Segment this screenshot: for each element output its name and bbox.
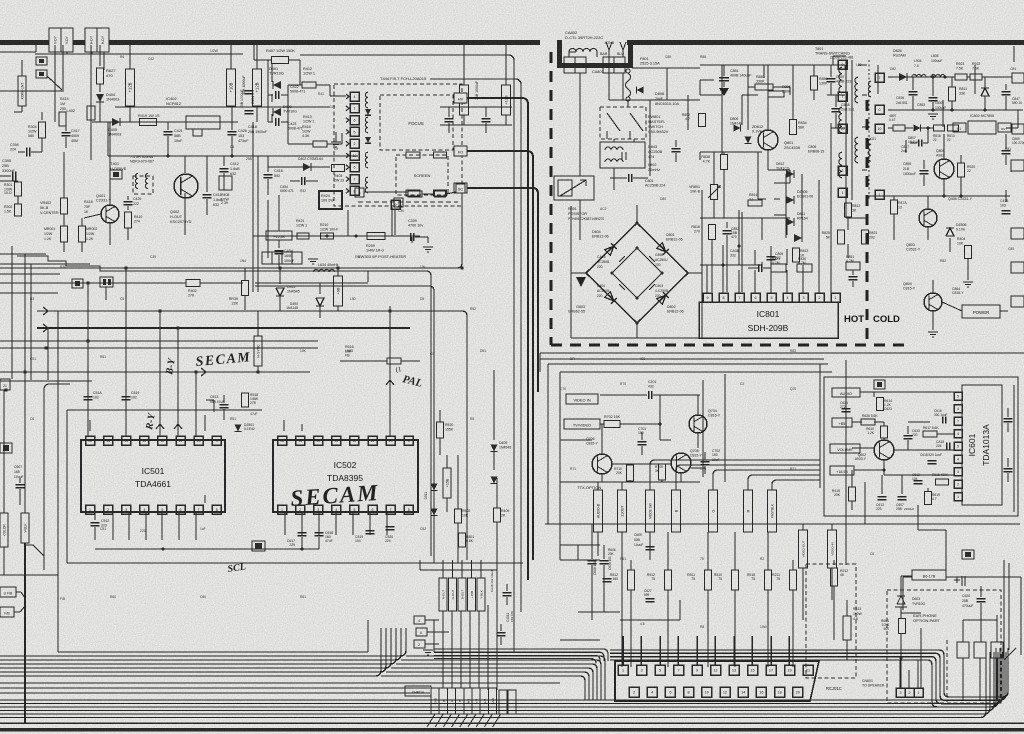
resistor R518 278 — [242, 393, 249, 407]
wire y283 extension — [255, 282, 368, 284]
wire SC line — [467, 188, 538, 392]
IC601 pin squares — [954, 392, 962, 400]
flyback dashed outline — [334, 84, 462, 206]
resistor heater 2 — [435, 191, 446, 197]
node box 4 — [414, 616, 425, 624]
resistor R825 5K — [838, 230, 845, 244]
T801 pin 1 — [838, 188, 847, 197]
wire drop to IC501 pin16 — [87, 283, 89, 436]
resistor R821 0.7M — [771, 264, 786, 272]
capacitor CA38b — [503, 592, 512, 594]
wire smps verticals 2 — [723, 170, 725, 218]
resistor R801b — [459, 533, 466, 547]
wire bus line y723 — [0, 722, 1024, 724]
resistor R419 1W 1S — [140, 119, 157, 126]
vbox H-SYNC — [257, 311, 259, 336]
resistor R301 — [0, 180, 18, 182]
flyback pin9 box — [391, 200, 400, 209]
wire y570 links — [420, 569, 497, 571]
terminal +18.5B — [830, 466, 854, 475]
IC502 top pin row — [278, 436, 287, 445]
wire bus A — [0, 628, 406, 656]
wire earphone diag — [1004, 648, 1016, 660]
IC801 pin row — [703, 293, 712, 302]
capacitor C610r — [1004, 418, 1013, 420]
hot-cold boundary dashed horizontal — [551, 343, 912, 346]
wire audio box outline — [824, 377, 1018, 516]
T801 secondary winding — [868, 81, 871, 97]
wire video net — [659, 395, 661, 424]
screen resistor 2 — [434, 190, 447, 196]
diode D803 ERB12-05 — [605, 292, 617, 304]
posistor R801 — [554, 176, 594, 200]
vbox FASTBLK — [768, 490, 777, 532]
capacitor C613 223 — [878, 496, 887, 498]
IC501 bottom pin row — [86, 505, 95, 514]
T801 pin 10 — [838, 124, 847, 133]
wire right verticals — [1003, 560, 1005, 650]
terminal F/B — [0, 607, 14, 617]
transistor Q804 C815-Y — [924, 293, 942, 311]
wire EW rail — [253, 235, 420, 237]
transistor Q706 — [592, 454, 612, 474]
T801 pin 2 — [838, 166, 847, 175]
wire connector row line — [35, 53, 243, 55]
connector V-DY — [49, 28, 61, 52]
resistor RR39 22K — [244, 268, 246, 280]
resistor R812 3K — [845, 203, 852, 217]
wire EW verticals pair — [252, 122, 254, 292]
resistor R813 100W — [843, 616, 851, 640]
wire RCJ pin feeds — [622, 636, 624, 665]
flyback diode 2 — [365, 137, 371, 143]
resistor R710 20K — [627, 465, 634, 481]
vbox 21OUT — [618, 490, 627, 532]
wire y77 rail — [888, 76, 899, 78]
vbox B-OUT — [458, 578, 466, 611]
resistor R604 820 — [899, 619, 906, 634]
resistor R920 22 — [958, 163, 965, 177]
wire RGB verticals to CH801A — [442, 611, 444, 688]
wire PAL drop — [389, 306, 391, 436]
wire diagonal — [47, 76, 62, 90]
capacitor C417 — [62, 132, 71, 134]
vbox AUDIO-B — [594, 490, 603, 532]
node box 6 — [416, 628, 427, 636]
resistor R511 75 — [707, 532, 709, 570]
node box 2 — [100, 277, 113, 287]
wire long vertical A — [300, 55, 514, 652]
resistor R838 4.7K — [721, 155, 728, 170]
dashed earphone box — [887, 590, 1001, 703]
diode D805 ECB01-06 — [786, 196, 794, 204]
wire z-bends — [33, 545, 44, 556]
transistor Q704 — [689, 415, 707, 433]
right edge terminal 4 — [1011, 262, 1024, 273]
resistor R211 75 — [792, 560, 794, 570]
wire staircase corner down — [368, 271, 431, 556]
resistor R818 56 — [934, 125, 945, 131]
wire bridge bottom — [636, 323, 638, 338]
resistor R709 3K — [659, 464, 666, 480]
diode D402 — [303, 163, 311, 171]
post-header squares — [355, 188, 364, 197]
right edge terminal 5 — [1011, 296, 1024, 307]
flyback SCREEN block — [396, 155, 448, 195]
capacitor C898 AC250B — [647, 256, 655, 264]
IC IC601 TDA1013A — [962, 385, 1002, 505]
vbox Y-BLK — [477, 578, 485, 611]
transistor Q402 H-OUT — [174, 174, 198, 198]
resistor R304 — [41, 112, 43, 120]
flyback FOCUS block — [380, 95, 453, 150]
vbox R — [744, 490, 753, 532]
capacitor C816 — [909, 91, 918, 93]
wire IC801 pin drops — [706, 270, 708, 293]
resistor R520 155K — [437, 422, 444, 438]
capacitor C806 222 — [767, 256, 776, 258]
wire top ground bus right — [627, 40, 1024, 45]
diode D812 TV41CG — [786, 170, 794, 178]
focus resistor 1 — [406, 152, 420, 158]
capacitor C847 — [1002, 91, 1011, 93]
capacitor C404 AC250B — [619, 282, 627, 290]
T801 right pins — [875, 73, 884, 82]
wire bus y328 — [37, 327, 410, 329]
resistor R812 1K — [793, 248, 800, 262]
resistor R813 22 — [948, 125, 959, 131]
diode D411 1N4545 — [279, 268, 281, 284]
terminal SC — [454, 183, 467, 193]
power rail +12B right — [253, 69, 262, 106]
diode D409 — [493, 410, 495, 440]
connector H-DY — [85, 28, 97, 52]
wire out of audio box — [917, 505, 919, 530]
resistor KOR6-1NT — [21, 60, 23, 76]
capacitor C435 — [445, 118, 454, 120]
vbox COLOR — [0, 513, 8, 547]
capacitor C403 AC250B — [647, 282, 655, 290]
diode D490 1N4148 — [319, 283, 321, 294]
resistor R408 — [219, 176, 232, 190]
wire earphone outer box — [903, 576, 1021, 578]
wire bus y348 — [0, 347, 318, 349]
terminal U-F/B — [0, 587, 16, 597]
rheostat VR402 V-CENTER — [63, 152, 65, 198]
zener D824 — [981, 88, 989, 96]
connector RCJ01C outline — [615, 661, 819, 701]
IC501 top pin row — [86, 436, 95, 445]
capacitor top right — [954, 576, 965, 586]
resistor R410 — [125, 212, 132, 228]
wire staircase boundary — [17, 256, 368, 282]
wire outer box A — [67, 409, 262, 411]
wire degauss net — [608, 73, 610, 100]
power rail +9B — [337, 268, 339, 276]
wire t801 stubs — [858, 64, 867, 66]
resistor R212 45 — [833, 560, 835, 565]
wire bus y268 — [0, 196, 462, 268]
terminal B6-17B — [912, 570, 946, 580]
resistor R822 7.5K — [970, 74, 982, 80]
diode D801 ERB12-06 — [657, 243, 669, 255]
wire degauss arrows — [606, 42, 612, 57]
resistor R627 470 — [97, 68, 104, 84]
resistor R802 4.7 — [699, 114, 706, 127]
junction dots bus — [86, 281, 89, 284]
wire long vertical B — [430, 79, 521, 612]
wire drop arrow B-Y — [177, 328, 179, 436]
capacitor CA15 AC250B — [619, 256, 627, 264]
resistor R424 100 2W — [319, 191, 342, 209]
wire drop pin11 — [195, 372, 197, 436]
right edge terminal 2 — [1012, 73, 1024, 83]
T801 pin 0 — [838, 60, 847, 69]
wire bridge feed — [613, 176, 615, 190]
resistor R409 2K — [494, 508, 501, 522]
wire bus RCJ feed — [512, 649, 608, 661]
capacitor C633 220 — [904, 435, 913, 437]
resistor R814 2J — [748, 200, 762, 206]
RCJ01C top pin row — [618, 665, 628, 675]
node small box right — [962, 550, 974, 559]
flyback primary winding — [365, 92, 368, 108]
capacitor C862 — [672, 148, 681, 150]
wire earphone wires — [900, 584, 902, 596]
resistor R610 1.2K — [881, 426, 888, 438]
wire H rail y122 — [92, 121, 238, 123]
wire y110 rail — [888, 109, 1023, 111]
diode D420 TVR10G — [273, 108, 281, 116]
resistor R823 7.5K — [955, 74, 967, 80]
wire outer box B — [57, 311, 59, 652]
resistor R516 10K — [387, 358, 401, 364]
power rail +12B mid — [505, 45, 507, 85]
capacitor C429 — [127, 196, 129, 200]
terminal FO — [454, 146, 467, 156]
terminal SC2 — [456, 184, 465, 193]
capacitor C309 body — [410, 233, 412, 241]
connector CA802 — [564, 57, 575, 73]
switch BW801 MASTER-SWITCH — [600, 107, 646, 139]
inductor L402 — [87, 106, 95, 120]
focus resistor 2 — [434, 152, 447, 158]
capacitor C520 — [386, 526, 395, 528]
resistor MR001 — [61, 226, 68, 242]
vbox G-OUT — [449, 578, 457, 611]
capacitor C868 — [832, 108, 841, 110]
capacitor C607 — [898, 496, 907, 498]
RCJ01C bottom pin row — [629, 687, 639, 697]
resistor R402 27K — [186, 280, 200, 287]
power rail +16B — [463, 45, 465, 85]
wire video inner verticals — [702, 380, 704, 477]
diode D603 TVR10G — [895, 596, 907, 607]
IC501 pin drops — [112, 512, 114, 540]
node box 113 — [252, 541, 265, 551]
regulator IC801 SDH-209B — [699, 302, 838, 338]
capacitor C852 — [726, 222, 728, 228]
resistor R218 — [321, 233, 334, 239]
ground y110 — [928, 113, 938, 115]
capacitor C519b — [366, 530, 375, 532]
transistor Q801 switching — [758, 130, 778, 150]
wire HV line — [467, 98, 528, 580]
connector CH801A pin boxes — [431, 688, 439, 714]
IC502 pin drops — [284, 512, 286, 535]
capacitor C853 — [929, 97, 938, 99]
wire vertical x846 long — [845, 360, 847, 565]
ground above bus — [423, 649, 433, 651]
resistor R403 2W23 — [332, 165, 345, 172]
wire top-left stub — [0, 51, 36, 53]
ground bridge — [571, 272, 586, 274]
capacitor C412 — [223, 156, 225, 166]
dashed box R212 — [806, 564, 856, 678]
diode D809 — [734, 125, 741, 132]
IC502 bottom pin row — [278, 505, 287, 514]
dashed heater line — [358, 201, 458, 203]
audio wires — [860, 391, 954, 393]
capacitor C512 — [94, 512, 96, 520]
rheostat VR801 — [711, 185, 718, 200]
capacitor C617 — [301, 524, 303, 530]
wire right column verticals — [493, 370, 495, 410]
capacitor C394 — [26, 148, 28, 157]
capacitor C434 mid — [482, 118, 491, 120]
wire IC502 bottom rail — [280, 548, 319, 550]
wire EW verticals — [391, 207, 393, 236]
wire mid bottom rails — [559, 522, 561, 560]
bridge rectifier diamond — [586, 223, 688, 323]
transistor Q602 — [874, 440, 894, 460]
inductor D-CTL coil — [569, 49, 597, 53]
node box 21 — [0, 379, 10, 390]
resistor R830 4.7M — [797, 264, 812, 272]
wire bus y283 — [0, 282, 186, 284]
flyback diode 1 — [365, 109, 371, 115]
resistor R510 75 — [734, 532, 736, 570]
resistor heater 1 — [408, 191, 422, 197]
capacitor C421 — [167, 122, 169, 130]
resistor R856 150K — [811, 76, 818, 90]
resistor R302 — [15, 204, 22, 216]
diode D813 — [794, 234, 802, 242]
node box top — [874, 380, 885, 389]
resistor R47A 13 — [891, 200, 898, 214]
wire left edge verticals — [11, 246, 13, 379]
capacitor C861 — [849, 276, 858, 278]
zener DZ806 — [946, 228, 954, 236]
vbox B — [672, 490, 681, 532]
wire smps mesh — [645, 99, 700, 101]
resistor R209 — [367, 233, 385, 240]
resistor R811 33K — [949, 87, 956, 101]
diode D408 — [491, 477, 498, 484]
diode D802 ERB12-06 — [657, 292, 669, 304]
resistor MR002 — [81, 225, 83, 227]
resistor R502 10K — [455, 509, 462, 523]
IC IC502 TDA8395 — [273, 440, 418, 512]
diode D511 — [431, 484, 438, 491]
terminal VIDEO IN — [566, 394, 598, 404]
wire verticals from bus — [54, 45, 56, 122]
wire FO line — [467, 151, 533, 560]
capacitor C411 — [206, 156, 208, 192]
resistor R626 5.6K — [861, 419, 875, 425]
capacitor C618 — [318, 524, 320, 530]
resistor R816 270 — [709, 225, 716, 240]
resistor R617 5.6K — [923, 431, 937, 437]
wire outer box C — [47, 329, 49, 380]
wire bus y372 — [0, 371, 310, 373]
wire speaker leads — [899, 660, 901, 688]
IC IC501 TDA4661 — [81, 440, 225, 512]
wire smps rails — [700, 64, 845, 66]
wire left edge verticals — [3, 390, 5, 513]
wire bus y311 — [37, 311, 467, 560]
node box S — [110, 170, 122, 179]
capacitor C513 — [220, 404, 229, 406]
header EW303 — [262, 252, 272, 264]
wire rgb elbow bundle — [650, 460, 820, 490]
vbox VIDEO-OUT — [799, 530, 808, 568]
flyback ground — [331, 141, 341, 143]
wire F/B leads — [16, 591, 21, 593]
wire cold rails — [887, 76, 889, 78]
wire smps top entry — [632, 67, 700, 69]
resistor R702 15K — [604, 421, 620, 428]
wire bottom rail y156 — [108, 155, 358, 157]
capacitor C810 — [758, 264, 760, 272]
regulator IC402 NCP812 — [186, 116, 220, 129]
flyback pin column — [350, 92, 359, 101]
capacitor C454 — [278, 240, 280, 248]
capacitor C455 — [301, 177, 303, 185]
wire heater y194 — [364, 191, 408, 193]
connector right extra boxes — [499, 690, 507, 714]
capacitor C801 — [628, 174, 630, 182]
wire vertical x865 — [864, 482, 866, 524]
wire bus y341 — [0, 340, 318, 342]
connector CH801A hatch — [427, 714, 435, 727]
diode D404 1N4003 — [96, 94, 104, 102]
line filter D843 — [600, 142, 645, 168]
wire video-out elbow — [620, 619, 680, 621]
capacitor C416 — [267, 156, 269, 172]
power rail +15B — [443, 468, 451, 498]
terminal VOLUME — [830, 444, 860, 453]
wire drop to IC501 pin14 — [125, 268, 127, 436]
wire video box outline — [560, 371, 832, 373]
dashed earphone divider — [946, 640, 948, 702]
vbox VIDEO-IN — [828, 530, 837, 568]
vbox +15B — [468, 578, 476, 611]
diode D807 1N4148 — [914, 125, 921, 132]
power rail +125B — [266, 231, 292, 240]
node icon boxes — [36, 57, 47, 65]
resistor R415 20K — [849, 487, 856, 501]
wire feed lines above video box — [540, 352, 1024, 354]
vbox R-OUT — [439, 578, 447, 611]
wire bus left of RCJ start — [434, 648, 512, 650]
power rail +10B — [227, 69, 236, 106]
wire video box outer line — [548, 363, 828, 365]
wire vbox feeds — [442, 560, 444, 578]
terminal +B5 — [832, 418, 852, 427]
wire cold verticals — [877, 65, 879, 94]
transistor Q401 — [101, 205, 119, 223]
